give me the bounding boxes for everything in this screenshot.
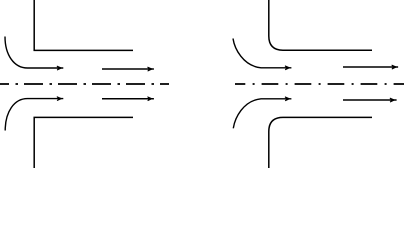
arrowhead of left axial arrow below centerline	[148, 97, 153, 101]
right centerline (dash-dot axis)	[235, 83, 404, 85]
left axial arrow below centerline	[102, 98, 154, 100]
left axial arrow above centerline	[102, 68, 154, 70]
right bottom streamline arrowhead	[285, 97, 290, 101]
right top streamline curve	[233, 39, 291, 68]
left pipe bottom wall (sharp edge)	[34, 117, 133, 168]
right bottom streamline curve	[233, 99, 291, 129]
right pipe top wall (rounded edge)	[269, 0, 372, 50]
left bottom streamline curve	[5, 99, 63, 131]
arrowhead of left axial arrow above centerline	[148, 67, 153, 71]
right axial arrow below centerline	[343, 99, 397, 101]
left pipe top wall (sharp edge)	[34, 0, 133, 50]
right pipe bottom wall (rounded edge)	[269, 117, 372, 168]
left top streamline arrowhead	[57, 66, 62, 70]
left centerline (dash-dot axis)	[0, 83, 169, 85]
arrowhead of right axial arrow below centerline	[390, 98, 395, 102]
arrowhead of right axial arrow above centerline	[392, 65, 397, 69]
left bottom streamline arrowhead	[57, 97, 62, 101]
left top streamline curve	[5, 37, 63, 69]
right top streamline arrowhead	[285, 66, 290, 70]
right axial arrow above centerline	[343, 66, 398, 68]
